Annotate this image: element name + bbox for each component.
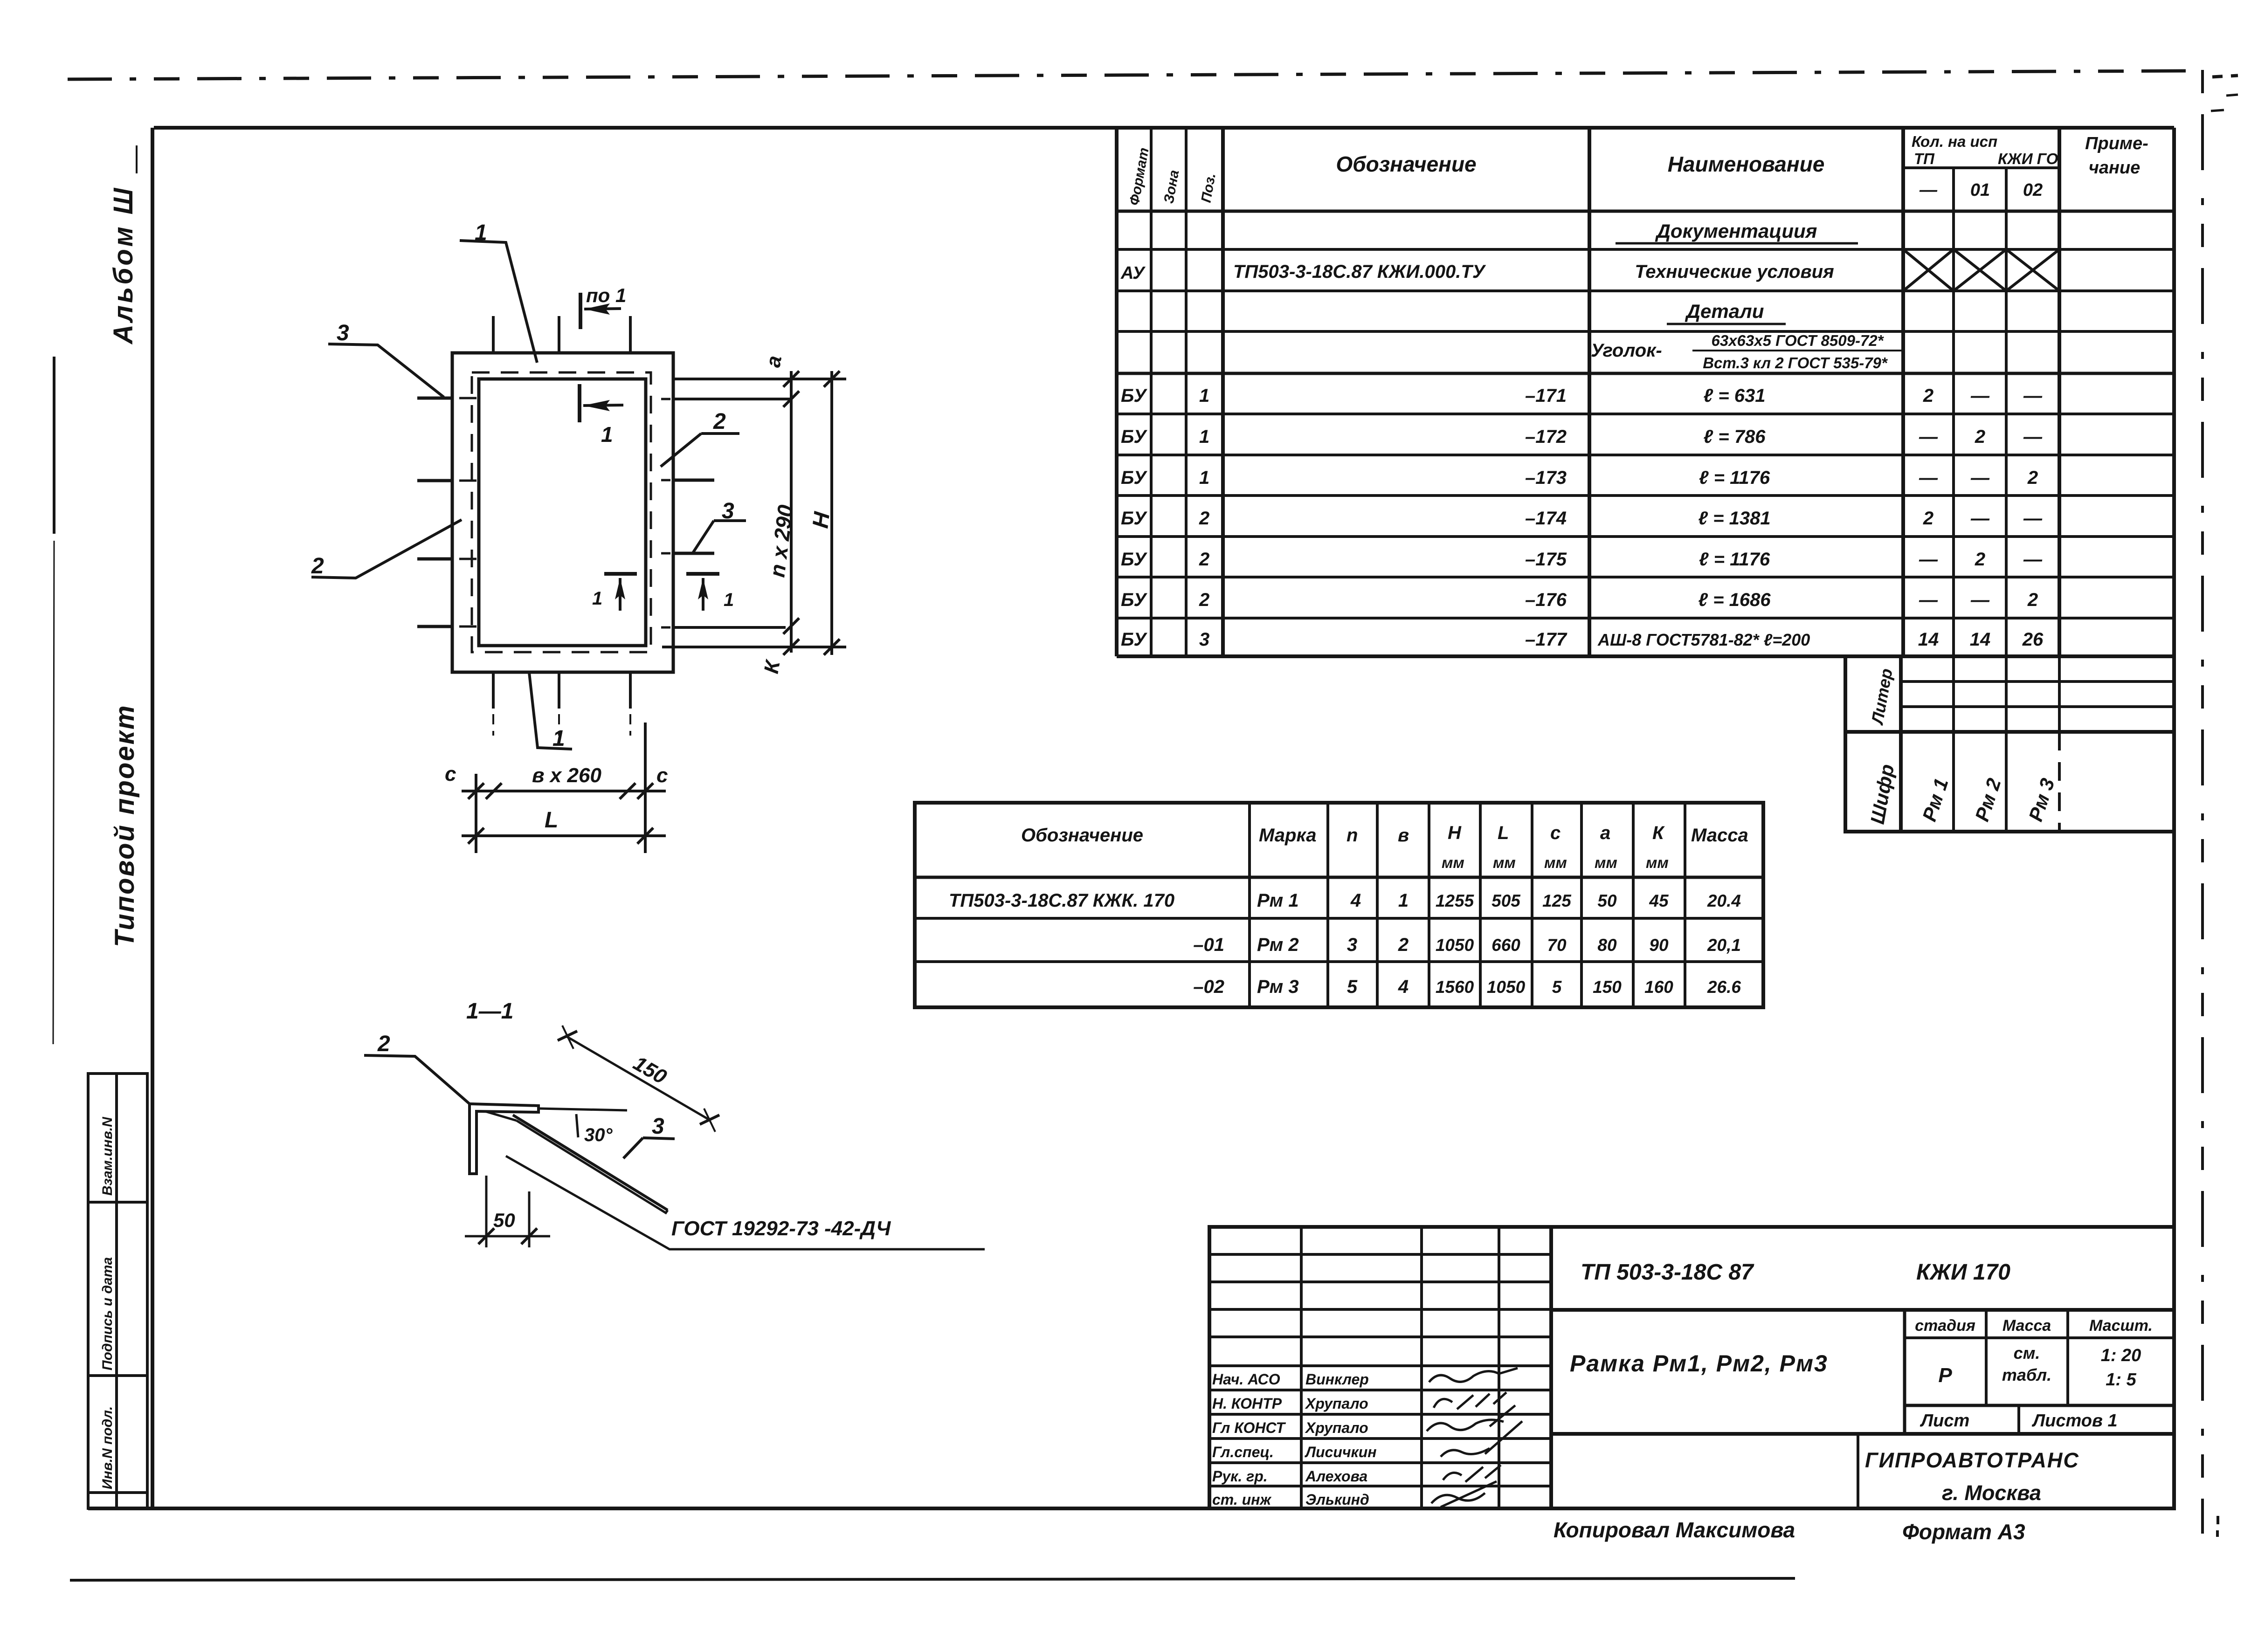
welded rod pos.3 going down-right — [513, 1115, 668, 1210]
svg-text:660: 660 — [1492, 936, 1520, 955]
svg-text:Вст.3 кл 2 ГОСТ 535-79*: Вст.3 кл 2 ГОСТ 535-79* — [1703, 354, 1888, 372]
svg-text:3: 3 — [337, 321, 349, 345]
svg-text:ℓ = 1176: ℓ = 1176 — [1699, 468, 1770, 488]
svg-text:Формат А3: Формат А3 — [1902, 1520, 2025, 1544]
svg-text:1050: 1050 — [1487, 977, 1526, 997]
svg-text:ℓ = 786: ℓ = 786 — [1704, 427, 1766, 447]
svg-text:К: К — [760, 658, 785, 675]
svg-text:n: n — [1347, 825, 1358, 846]
svg-text:2: 2 — [1398, 935, 1409, 955]
svg-text:2: 2 — [1199, 549, 1209, 570]
svg-text:Гл.спец.: Гл.спец. — [1212, 1444, 1274, 1460]
svg-text:5: 5 — [1347, 977, 1358, 997]
dimension 150 along rod — [567, 1037, 709, 1120]
svg-text:1: 1 — [724, 590, 734, 610]
svg-text:БУ: БУ — [1121, 427, 1147, 447]
svg-text:–02: –02 — [1193, 977, 1224, 997]
data rows — [1121, 385, 2044, 650]
svg-text:Документациия: Документациия — [1655, 220, 1817, 242]
signature scribbles — [1427, 1368, 1522, 1507]
svg-text:80: 80 — [1597, 936, 1617, 955]
svg-text:—: — — [1970, 468, 1990, 488]
svg-text:–01: –01 — [1193, 935, 1224, 955]
dimension line n x 290 — [790, 371, 793, 653]
stage/mass/scale grid — [1903, 1310, 1906, 1434]
svg-text:Уголок-: Уголок- — [1591, 340, 1662, 361]
org cell — [1857, 1434, 1859, 1508]
svg-text:Листов 1: Листов 1 — [2031, 1411, 2118, 1431]
svg-text:Рамка Рм1, Рм2, Рм3: Рамка Рм1, Рм2, Рм3 — [1570, 1350, 1828, 1377]
bottom dimension extension lines — [475, 774, 477, 853]
svg-text:ст. инж: ст. инж — [1212, 1491, 1271, 1508]
svg-text:Альбом Ш: Альбом Ш — [108, 186, 138, 345]
svg-text:Обозначение: Обозначение — [1021, 825, 1143, 846]
rebar ticks top (pos.1 anchors) — [492, 316, 495, 354]
frame plan drawing — [311, 220, 846, 853]
svg-text:мм: мм — [1646, 854, 1669, 871]
svg-text:–177: –177 — [1525, 629, 1567, 650]
svg-text:1: 1 — [1199, 385, 1209, 406]
dimension line в x 260 — [462, 790, 666, 792]
svg-text:50: 50 — [1597, 891, 1617, 910]
svg-text:Гл КОНСТ: Гл КОНСТ — [1212, 1419, 1286, 1436]
svg-text:Алехова: Алехова — [1305, 1468, 1367, 1485]
svg-text:см.: см. — [2014, 1343, 2040, 1363]
svg-text:1: 1 — [1199, 468, 1209, 488]
svg-text:45: 45 — [1649, 891, 1669, 910]
rebar ticks bottom — [492, 672, 495, 709]
svg-text:160: 160 — [1644, 977, 1673, 997]
svg-text:г. Москва: г. Москва — [1942, 1481, 2041, 1505]
svg-text:АУ: АУ — [1120, 263, 1146, 283]
svg-text:150: 150 — [629, 1052, 671, 1088]
svg-text:Копировал Максимова: Копировал Максимова — [1554, 1518, 1795, 1542]
outer dashed right edge of sheet — [2201, 70, 2204, 1534]
svg-text:3: 3 — [652, 1114, 664, 1139]
svg-text:30°: 30° — [584, 1125, 613, 1145]
svg-text:Масшт.: Масшт. — [2089, 1317, 2153, 1335]
svg-text:Марка: Марка — [1259, 825, 1317, 846]
svg-text:26: 26 — [2022, 629, 2044, 650]
title block — [1209, 1227, 2174, 1508]
dimension line H — [830, 371, 833, 655]
svg-text:ℓ = 1381: ℓ = 1381 — [1698, 508, 1770, 529]
svg-text:02: 02 — [2023, 180, 2043, 200]
svg-text:с: с — [1550, 823, 1561, 843]
svg-text:01: 01 — [1970, 180, 1990, 200]
svg-text:90: 90 — [1649, 936, 1669, 955]
angle profile (pos.2 cross-section) — [470, 1104, 539, 1174]
svg-text:–174: –174 — [1525, 508, 1567, 529]
svg-text:1: 1 — [1398, 890, 1409, 911]
dimension 50 — [485, 1176, 488, 1247]
svg-text:Поз.: Поз. — [1198, 172, 1219, 204]
svg-text:БУ: БУ — [1121, 590, 1147, 610]
signature grid — [1549, 1227, 1553, 1508]
svg-text:—: — — [1919, 468, 1938, 488]
hidden dashed contour (angle heel line) — [472, 372, 651, 652]
svg-text:–173: –173 — [1525, 468, 1567, 488]
svg-text:КЖИ 170: КЖИ 170 — [1916, 1260, 2010, 1285]
svg-text:Элькинд: Элькинд — [1305, 1491, 1369, 1508]
rebar ticks left — [417, 397, 452, 400]
svg-text:Детали: Детали — [1685, 300, 1764, 322]
svg-text:мм: мм — [1595, 854, 1617, 871]
svg-text:1: 5: 1: 5 — [2106, 1370, 2136, 1390]
svg-text:Рм 3: Рм 3 — [1257, 977, 1299, 997]
svg-text:125: 125 — [1542, 891, 1572, 910]
vertical column lines — [1115, 128, 1119, 656]
svg-text:2: 2 — [1199, 590, 1209, 610]
dimension line L — [462, 834, 666, 837]
svg-text:3: 3 — [1199, 629, 1209, 650]
svg-text:Приме-: Приме- — [2085, 134, 2148, 153]
section mark 1 (bottom left, arrow up) — [604, 572, 637, 576]
svg-text:L: L — [1498, 823, 1509, 843]
svg-text:—: — — [1970, 508, 1990, 529]
svg-text:1560: 1560 — [1436, 977, 1474, 997]
parts list table — [1117, 128, 2174, 656]
svg-text:ℓ = 631: ℓ = 631 — [1704, 385, 1766, 406]
shifr label cell — [1845, 732, 1901, 832]
svg-text:Взам.инв.N: Взам.инв.N — [100, 1116, 115, 1196]
svg-text:n х 290: n х 290 — [765, 503, 798, 579]
svg-text:а: а — [762, 354, 787, 369]
svg-text:20.4: 20.4 — [1707, 891, 1741, 910]
svg-text:—: — — [2023, 385, 2043, 406]
right dimension extension lines — [673, 378, 846, 380]
liter/shifr table — [1845, 656, 2174, 832]
svg-text:—: — — [1970, 590, 1990, 610]
svg-text:в х 260: в х 260 — [532, 764, 601, 787]
svg-text:Н: Н — [1448, 823, 1462, 843]
liter rows — [1901, 680, 2174, 683]
svg-text:—: — — [2023, 549, 2043, 570]
svg-text:–171: –171 — [1525, 385, 1567, 406]
svg-text:—: — — [1919, 590, 1938, 610]
svg-text:2: 2 — [2027, 590, 2038, 610]
sheet top dash-dot line — [68, 71, 2238, 111]
svg-text:ТП: ТП — [1914, 150, 1935, 167]
svg-text:L: L — [545, 808, 558, 833]
svg-text:с: с — [656, 764, 668, 787]
svg-text:Масса: Масса — [1691, 825, 1748, 846]
svg-text:с: с — [445, 763, 456, 785]
list row — [2017, 1405, 2020, 1434]
svg-text:2: 2 — [1923, 508, 1933, 529]
svg-text:Нач. АСО: Нач. АСО — [1212, 1371, 1280, 1388]
row rules — [1117, 248, 2174, 251]
svg-text:2: 2 — [713, 409, 726, 434]
svg-text:Масса: Масса — [2003, 1317, 2051, 1335]
svg-text:3: 3 — [1347, 935, 1357, 955]
header rules — [1903, 166, 2059, 169]
svg-text:1255: 1255 — [1436, 891, 1475, 910]
scan edge dashes bottom right — [2217, 1516, 2219, 1524]
svg-text:БУ: БУ — [1121, 385, 1147, 406]
svg-text:–176: –176 — [1525, 590, 1567, 610]
svg-text:26.6: 26.6 — [1707, 977, 1741, 997]
svg-text:2: 2 — [1975, 427, 1985, 447]
svg-text:Зона: Зона — [1161, 169, 1182, 205]
svg-text:ТП503-3-18С.87 КЖИ.000.ТУ: ТП503-3-18С.87 КЖИ.000.ТУ — [1233, 262, 1486, 282]
svg-text:–172: –172 — [1525, 427, 1567, 447]
svg-text:4: 4 — [1398, 977, 1409, 997]
svg-text:2: 2 — [1923, 385, 1933, 406]
inventory mini table — [88, 1074, 147, 1508]
svg-text:Рм 2: Рм 2 — [1971, 776, 2005, 824]
svg-text:мм: мм — [1544, 854, 1567, 871]
svg-text:а: а — [1600, 823, 1610, 843]
svg-text:—: — — [1970, 385, 1990, 406]
outer contour of frame Rm — [452, 353, 673, 672]
svg-text:14: 14 — [1918, 629, 1939, 650]
svg-text:Наименование: Наименование — [1668, 152, 1825, 176]
svg-text:БУ: БУ — [1121, 508, 1147, 529]
inner contour (opening) — [479, 379, 646, 646]
svg-text:—: — — [2023, 427, 2043, 447]
svg-text:Лисичкин: Лисичкин — [1305, 1444, 1377, 1460]
svg-text:ℓ = 1686: ℓ = 1686 — [1698, 590, 1771, 610]
parameter table — [915, 803, 1763, 1007]
svg-text:50: 50 — [493, 1209, 515, 1231]
section mark 1 (inside opening) — [578, 384, 581, 422]
bottom annotations — [1554, 1516, 2218, 1544]
svg-text:Лист: Лист — [1920, 1411, 1969, 1431]
svg-text:Технические условия: Технические условия — [1635, 262, 1834, 282]
left margin column — [53, 145, 147, 1508]
svg-text:1: 1 — [601, 422, 613, 447]
svg-text:чание: чание — [2089, 158, 2141, 178]
svg-text:Р: Р — [1938, 1364, 1952, 1387]
svg-text:Хрупало: Хрупало — [1305, 1395, 1368, 1412]
svg-text:1—1: 1—1 — [466, 999, 513, 1024]
svg-text:Н. КОНТР: Н. КОНТР — [1212, 1395, 1282, 1412]
svg-text:2: 2 — [1199, 508, 1209, 529]
svg-text:Рм 2: Рм 2 — [1257, 935, 1299, 955]
svg-text:в: в — [1398, 825, 1409, 846]
svg-text:мм: мм — [1493, 854, 1516, 871]
svg-text:2: 2 — [1975, 549, 1985, 570]
svg-text:Шифр: Шифр — [1866, 763, 1899, 826]
section mark 1 (bottom right) — [686, 572, 719, 576]
extension ticks for 150 — [562, 1026, 573, 1049]
svg-text:70: 70 — [1547, 936, 1567, 955]
svg-text:1: 1 — [1199, 427, 1209, 447]
svg-text:–175: –175 — [1525, 549, 1567, 570]
svg-text:ГИПРОАВТОТРАНС: ГИПРОАВТОТРАНС — [1865, 1448, 2079, 1472]
svg-text:2: 2 — [2027, 468, 2038, 488]
svg-text:4: 4 — [1350, 890, 1361, 911]
svg-text:БУ: БУ — [1121, 468, 1147, 488]
liter label cell — [1845, 656, 1901, 732]
svg-text:Кол. на исп: Кол. на исп — [1912, 133, 1997, 150]
svg-text:БУ: БУ — [1121, 629, 1147, 650]
svg-text:Хрупало: Хрупало — [1305, 1419, 1368, 1436]
svg-text:5: 5 — [1552, 977, 1562, 997]
svg-text:63х63х5 ГОСТ 8509-72*: 63х63х5 ГОСТ 8509-72* — [1712, 332, 1885, 349]
svg-text:505: 505 — [1492, 891, 1521, 910]
svg-text:Литер: Литер — [1867, 667, 1896, 727]
svg-text:мм: мм — [1442, 854, 1464, 871]
svg-text:БУ: БУ — [1121, 549, 1147, 570]
svg-text:2: 2 — [377, 1032, 390, 1056]
svg-text:КЖИ ГО: КЖИ ГО — [1998, 150, 2058, 167]
svg-text:2: 2 — [311, 554, 324, 578]
leader GOST note — [506, 1156, 985, 1249]
svg-text:ТП503-3-18С.87 КЖК. 170: ТП503-3-18С.87 КЖК. 170 — [949, 890, 1174, 911]
svg-text:—: — — [2023, 508, 2043, 529]
svg-text:ГОСТ 19292-73 -42-ДЧ: ГОСТ 19292-73 -42-ДЧ — [671, 1217, 891, 1240]
svg-text:Подпись и дата: Подпись и дата — [100, 1257, 115, 1370]
svg-text:Формат: Формат — [1126, 146, 1152, 206]
horizontal reference line for angle 30 — [539, 1108, 627, 1110]
svg-text:Типовой проект: Типовой проект — [110, 704, 140, 947]
svg-text:табл.: табл. — [2002, 1365, 2051, 1384]
svg-text:14: 14 — [1970, 629, 1991, 650]
svg-text:ТП 503-3-18С 87: ТП 503-3-18С 87 — [1581, 1260, 1754, 1285]
shifr value cells — [1952, 732, 1955, 832]
svg-text:Рм 1: Рм 1 — [1918, 776, 1953, 824]
svg-text:К: К — [1652, 823, 1665, 843]
svg-text:20,1: 20,1 — [1707, 936, 1741, 955]
svg-text:Обозначение: Обозначение — [1336, 152, 1476, 176]
svg-text:АШ-8 ГОСТ5781-82* ℓ=200: АШ-8 ГОСТ5781-82* ℓ=200 — [1597, 630, 1810, 649]
svg-text:Винклер: Винклер — [1305, 1371, 1369, 1388]
svg-text:Инв.N подл.: Инв.N подл. — [100, 1406, 115, 1489]
svg-text:1050: 1050 — [1436, 936, 1474, 955]
svg-text:стадия: стадия — [1915, 1317, 1975, 1335]
section 1-1 detail — [364, 999, 985, 1249]
svg-text:по 1: по 1 — [586, 284, 626, 306]
page fold line — [53, 357, 55, 534]
svg-text:1: 20: 1: 20 — [2101, 1346, 2141, 1365]
svg-text:Рм 3: Рм 3 — [2024, 776, 2059, 824]
svg-text:1: 1 — [592, 588, 602, 609]
svg-text:ℓ = 1176: ℓ = 1176 — [1699, 549, 1770, 570]
rebar ticks right — [661, 398, 670, 400]
bottom separate rule — [70, 1578, 1795, 1580]
svg-text:Рм 1: Рм 1 — [1257, 890, 1299, 911]
svg-text:—: — — [1919, 549, 1938, 570]
svg-text:—: — — [1919, 180, 1938, 200]
svg-text:Рук. гр.: Рук. гр. — [1212, 1468, 1268, 1485]
svg-text:—: — — [1919, 427, 1938, 447]
svg-text:150: 150 — [1593, 977, 1622, 997]
